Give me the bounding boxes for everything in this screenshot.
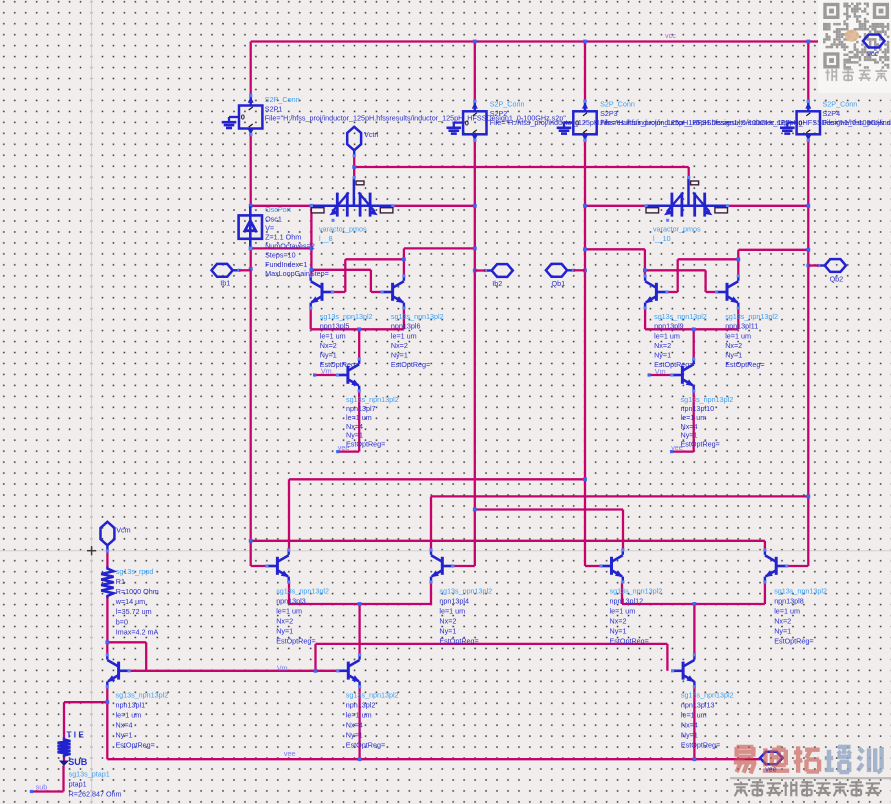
svg-text:EstOptReg=: EstOptReg= bbox=[391, 360, 430, 369]
svg-text:sg13s_npn13pl2: sg13s_npn13pl2 bbox=[725, 312, 778, 321]
svg-text:NumOctaves=2: NumOctaves=2 bbox=[265, 242, 315, 251]
svg-text:npn13pl2: npn13pl2 bbox=[346, 701, 376, 710]
svg-text:R1: R1 bbox=[116, 577, 125, 586]
svg-text:Nx=2: Nx=2 bbox=[725, 341, 742, 350]
svg-text:Nx=2: Nx=2 bbox=[610, 617, 627, 626]
svg-text:sg13s_npn13pl2: sg13s_npn13pl2 bbox=[320, 312, 373, 321]
svg-text:EstOptReg=: EstOptReg= bbox=[774, 637, 813, 646]
svg-text:Ny=1: Ny=1 bbox=[654, 351, 671, 360]
svg-text:Nx=2: Nx=2 bbox=[276, 617, 293, 626]
svg-text:EstOptReg=: EstOptReg= bbox=[681, 440, 720, 449]
svg-text:vee: vee bbox=[338, 443, 350, 452]
svg-text:S2P4: S2P4 bbox=[823, 109, 841, 118]
svg-text:Ny=1: Ny=1 bbox=[346, 431, 363, 440]
svg-text:vcc: vcc bbox=[665, 31, 676, 40]
svg-text:S2P_Conn: S2P_Conn bbox=[823, 100, 858, 109]
svg-text:Ny=1: Ny=1 bbox=[439, 627, 456, 636]
svg-text:vee: vee bbox=[765, 764, 777, 773]
svg-text:npn13pl12: npn13pl12 bbox=[610, 597, 644, 606]
svg-text:R=262.847 Ohm: R=262.847 Ohm bbox=[69, 790, 122, 799]
svg-text:Ny=1: Ny=1 bbox=[610, 627, 627, 636]
svg-text:sg13s_npn13pl2: sg13s_npn13pl2 bbox=[681, 691, 734, 700]
svg-text:0: 0 bbox=[241, 113, 245, 122]
svg-text:Ny=1: Ny=1 bbox=[391, 351, 408, 360]
svg-text:Vm: Vm bbox=[655, 367, 666, 376]
svg-text:npn13pl5: npn13pl5 bbox=[320, 322, 350, 331]
svg-text:Z=1.1 Ohm: Z=1.1 Ohm bbox=[265, 233, 301, 242]
svg-text:sg13s_npn13pl2: sg13s_npn13pl2 bbox=[610, 587, 663, 596]
svg-text:Nx=4: Nx=4 bbox=[116, 721, 133, 730]
svg-text:l__8: l__8 bbox=[319, 234, 333, 243]
svg-text:le=1 um: le=1 um bbox=[681, 711, 707, 720]
svg-text:vee: vee bbox=[671, 443, 683, 452]
svg-text:Vcm: Vcm bbox=[116, 525, 130, 534]
svg-text:Vm: Vm bbox=[277, 663, 288, 672]
svg-text:ptap1: ptap1 bbox=[69, 780, 87, 789]
svg-text:Osc1: Osc1 bbox=[265, 214, 282, 223]
svg-text:Nx=2: Nx=2 bbox=[439, 617, 456, 626]
svg-text:npn13pl11: npn13pl11 bbox=[725, 322, 758, 331]
svg-text:Ny=1: Ny=1 bbox=[774, 627, 791, 636]
svg-text:le=1 um: le=1 um bbox=[681, 413, 707, 422]
svg-text:sg13s_npn13pl2: sg13s_npn13pl2 bbox=[346, 691, 399, 700]
svg-text:npn13pl9: npn13pl9 bbox=[654, 322, 684, 331]
svg-text:S2P2: S2P2 bbox=[490, 109, 508, 118]
svg-text:Nx=4: Nx=4 bbox=[346, 721, 363, 730]
svg-text:b=0: b=0 bbox=[116, 617, 128, 626]
svg-text:Nx=4: Nx=4 bbox=[346, 422, 363, 431]
svg-text:le=1 um: le=1 um bbox=[346, 413, 372, 422]
svg-text:sg13s_npn13pl2: sg13s_npn13pl2 bbox=[681, 395, 734, 404]
svg-text:npn13pl8: npn13pl8 bbox=[774, 597, 804, 606]
svg-text:le=1 um: le=1 um bbox=[276, 607, 302, 616]
svg-text:w=14 um: w=14 um bbox=[115, 597, 145, 606]
svg-text:Ny=1: Ny=1 bbox=[116, 731, 133, 740]
svg-text:EstOptReg=: EstOptReg= bbox=[346, 741, 385, 750]
svg-text:Qb2: Qb2 bbox=[830, 275, 844, 284]
svg-text:npn13pl6: npn13pl6 bbox=[391, 322, 421, 331]
svg-text:Imax=4.2 mA: Imax=4.2 mA bbox=[116, 627, 159, 636]
svg-text:sg13s_npn13pl2: sg13s_npn13pl2 bbox=[391, 312, 444, 321]
svg-text:sg13s_ptap1: sg13s_ptap1 bbox=[69, 769, 110, 778]
svg-text:Ny=1: Ny=1 bbox=[276, 627, 293, 636]
svg-text:Ny=1: Ny=1 bbox=[681, 731, 698, 740]
svg-text:T I E: T I E bbox=[67, 730, 85, 739]
svg-text:EstOptReg=: EstOptReg= bbox=[116, 741, 155, 750]
svg-text:sub: sub bbox=[36, 783, 48, 792]
svg-text:Nx=2: Nx=2 bbox=[391, 341, 408, 350]
svg-text:npn13pl3: npn13pl3 bbox=[276, 597, 306, 606]
svg-text:Nx=2: Nx=2 bbox=[774, 617, 791, 626]
svg-text:Ny=1: Ny=1 bbox=[681, 431, 698, 440]
svg-text:S2P_Conn: S2P_Conn bbox=[265, 95, 300, 104]
svg-text:SUB: SUB bbox=[68, 757, 88, 767]
svg-text:FundIndex=1: FundIndex=1 bbox=[265, 260, 307, 269]
svg-text:npn13pl1: npn13pl1 bbox=[116, 701, 146, 710]
svg-text:Ny=1: Ny=1 bbox=[346, 731, 363, 740]
svg-text:le=1 um: le=1 um bbox=[439, 607, 465, 616]
svg-text:S2P_Conn: S2P_Conn bbox=[600, 100, 635, 109]
svg-text:EstOptReg=: EstOptReg= bbox=[681, 741, 720, 750]
svg-text:Nx=2: Nx=2 bbox=[320, 341, 337, 350]
svg-text:Nx=2: Nx=2 bbox=[654, 341, 671, 350]
svg-text:npn13pl4: npn13pl4 bbox=[439, 597, 469, 606]
svg-text:le=1 um: le=1 um bbox=[774, 607, 800, 616]
svg-text:Vctrl: Vctrl bbox=[364, 130, 379, 139]
svg-text:S2P_Conn: S2P_Conn bbox=[490, 100, 525, 109]
svg-text:vcc: vcc bbox=[867, 49, 878, 58]
svg-text:npn13pl10: npn13pl10 bbox=[681, 404, 715, 413]
svg-text:MaxLoopGainStep=: MaxLoopGainStep= bbox=[265, 269, 329, 278]
svg-text:le=1 um: le=1 um bbox=[725, 331, 751, 340]
svg-text:Nx=4: Nx=4 bbox=[681, 422, 698, 431]
svg-text:le=1 um: le=1 um bbox=[610, 607, 636, 616]
svg-text:l__10: l__10 bbox=[653, 234, 671, 243]
svg-text:sg13s_npn13pl2: sg13s_npn13pl2 bbox=[346, 395, 399, 404]
svg-text:sg13s_npn13pl2: sg13s_npn13pl2 bbox=[439, 587, 492, 596]
svg-text:EstOptReg=: EstOptReg= bbox=[725, 360, 764, 369]
svg-text:Steps=10: Steps=10 bbox=[265, 251, 296, 260]
svg-text:varactor_pmos: varactor_pmos bbox=[319, 224, 367, 233]
svg-text:sg13s_npn13pl2: sg13s_npn13pl2 bbox=[276, 587, 329, 596]
svg-text:sg13s_rppd: sg13s_rppd bbox=[116, 567, 154, 576]
svg-text:S2P3: S2P3 bbox=[600, 109, 618, 118]
svg-text:Ib2: Ib2 bbox=[492, 279, 502, 288]
svg-text:File="H:/hfss_proj/inductor_12: File="H:/hfss_proj/inductor_125pH.hfssre… bbox=[823, 118, 891, 127]
svg-text:EstOptReg=: EstOptReg= bbox=[610, 637, 649, 646]
svg-text:EstOptReg=: EstOptReg= bbox=[439, 637, 478, 646]
svg-text:npn13pl13: npn13pl13 bbox=[681, 701, 715, 710]
svg-text:l=35.72 um: l=35.72 um bbox=[116, 607, 152, 616]
svg-text:R=1000 Ohm: R=1000 Ohm bbox=[116, 587, 159, 596]
svg-text:Vm: Vm bbox=[321, 367, 332, 376]
svg-text:le=1 um: le=1 um bbox=[391, 331, 417, 340]
svg-text:EstOptReg=: EstOptReg= bbox=[276, 637, 315, 646]
svg-text:sg13s_npn13pl2: sg13s_npn13pl2 bbox=[654, 312, 707, 321]
svg-text:sg13s_npn13pl2: sg13s_npn13pl2 bbox=[116, 691, 169, 700]
svg-text:Ny=1: Ny=1 bbox=[725, 351, 742, 360]
svg-text:sg13s_npn13pl2: sg13s_npn13pl2 bbox=[774, 587, 827, 596]
svg-text:npn13pl7: npn13pl7 bbox=[346, 404, 376, 413]
svg-text:le=1 um: le=1 um bbox=[116, 711, 142, 720]
svg-text:varactor_pmos: varactor_pmos bbox=[653, 224, 701, 233]
svg-text:Ny=1: Ny=1 bbox=[320, 351, 337, 360]
svg-text:le=1 um: le=1 um bbox=[320, 331, 346, 340]
svg-text:Nx=4: Nx=4 bbox=[681, 721, 698, 730]
svg-text:le=1 um: le=1 um bbox=[654, 331, 680, 340]
svg-text:Qb1: Qb1 bbox=[552, 279, 566, 288]
svg-text:Ib1: Ib1 bbox=[220, 279, 230, 288]
svg-text:le=1 um: le=1 um bbox=[346, 711, 372, 720]
svg-text:V=: V= bbox=[265, 223, 274, 232]
svg-text:vee: vee bbox=[284, 749, 296, 758]
svg-text:EstOptReg=: EstOptReg= bbox=[346, 440, 385, 449]
svg-text:S2P1: S2P1 bbox=[265, 105, 283, 114]
svg-text:OscPort: OscPort bbox=[265, 205, 291, 214]
